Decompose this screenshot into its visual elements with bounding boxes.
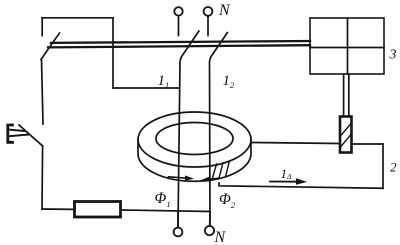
fuse / link element: [340, 117, 352, 153]
svg-text:Φ1: Φ1: [155, 190, 171, 209]
wire top-left vertical drop to switch: [41, 18, 43, 36]
busbar top line: [51, 41, 310, 43]
flux arrow phi2 (points left): [201, 177, 219, 182]
svg-text:N: N: [214, 229, 227, 245]
svg-text:1Δ: 1Δ: [281, 166, 293, 181]
svg-text:2: 2: [390, 159, 397, 174]
core inner ellipse: [156, 123, 233, 155]
svg-text:11: 11: [158, 73, 170, 90]
terminal circle top left: [174, 7, 182, 35]
core bottom rim arc: [138, 140, 251, 182]
wire bottom return with step to core: [219, 183, 383, 188]
switch blade (disconnector in line 1): [41, 33, 60, 60]
wire top-left horizontal: [42, 17, 113, 19]
knife contact fork (test prod): [8, 125, 28, 142]
svg-text:N: N: [218, 2, 231, 19]
wire vertical branch x=113: [112, 18, 114, 88]
double lead from box 3: [344, 74, 349, 115]
wire fuse to right: [353, 143, 383, 145]
flux arrow phi1 (points right): [169, 175, 195, 180]
wire to resistor: [42, 208, 74, 210]
terminal circle bottom right N: [205, 212, 214, 236]
svg-text:3: 3: [389, 48, 397, 63]
wire horizontal to conductor 1-1: [113, 87, 180, 89]
current transformer core outer ellipse: [138, 112, 251, 167]
core section tick 2: [219, 163, 223, 179]
current I-delta arrow: [270, 178, 307, 184]
core section tick 3: [226, 161, 230, 177]
terminal circle bottom left: [174, 211, 183, 236]
knife switch blade lower: [19, 125, 43, 146]
wire right vertical: [382, 144, 384, 188]
terminal circle top right N: [204, 7, 213, 36]
svg-text:12: 12: [223, 73, 236, 90]
wire resistor to transformer terminals: [122, 210, 210, 212]
resistor R: [75, 202, 121, 218]
wire left vertical upper: [42, 60, 44, 124]
wire core to fuse: [252, 143, 339, 144]
conductor 1-1 (vertical through CT with slant over busbar): [178, 31, 199, 227]
svg-text:Φ2: Φ2: [219, 191, 236, 210]
conductor 1-2 (vertical through CT with slant over busbar): [210, 33, 228, 226]
device 3 box: [310, 18, 384, 74]
busbar bottom line: [48, 45, 310, 47]
wire left vertical lower: [41, 146, 44, 209]
core section tick 1: [212, 164, 217, 180]
